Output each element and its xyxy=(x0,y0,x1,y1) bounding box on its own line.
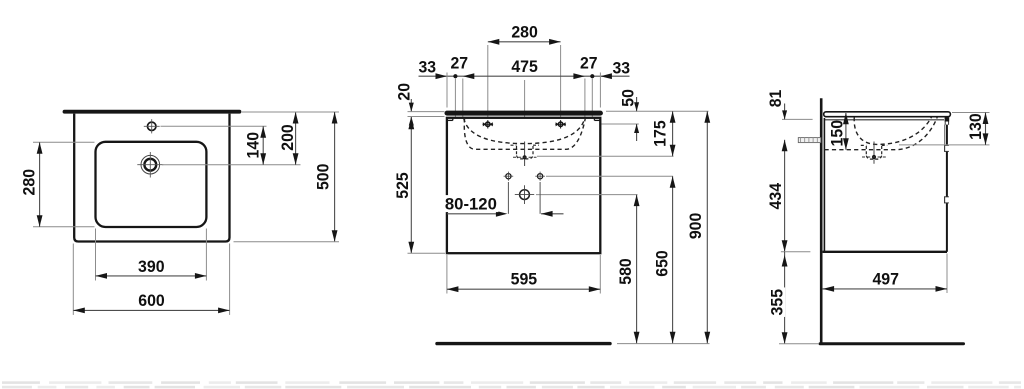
svg-text:600: 600 xyxy=(138,292,165,310)
svg-text:130: 130 xyxy=(967,113,985,140)
svg-text:900: 900 xyxy=(687,213,705,240)
washbasin plan view: body outline 600x500 xyxy=(74,114,229,242)
cabinet bottom side xyxy=(823,251,947,253)
basin bowl hidden outer curve xyxy=(464,118,585,149)
extension lines for 130 xyxy=(952,112,990,114)
svg-text:175: 175 xyxy=(652,120,670,147)
leader from cabinet fixing hole xyxy=(546,175,673,177)
cabinet front edge with drawer gaps xyxy=(946,125,948,146)
basin bowl hidden curve side inner xyxy=(854,117,931,144)
svg-text:500: 500 xyxy=(315,164,333,191)
leader from faucet hole xyxy=(161,125,267,127)
dim 497 cabinet depth xyxy=(823,288,947,290)
extension line cabinet bottom left xyxy=(781,251,811,253)
extension lines fixing holes xyxy=(487,45,489,120)
dim 80-120 siphon range xyxy=(447,213,503,215)
extension line rim top right xyxy=(242,111,339,113)
cropped text strip at bottom xyxy=(2,381,40,384)
dim 525 cabinet height xyxy=(410,118,412,253)
leader from drain xyxy=(162,164,301,166)
extension lines basin left xyxy=(33,141,95,143)
extension lines basin bottom xyxy=(95,229,97,281)
floor extension line xyxy=(617,343,710,345)
wall line xyxy=(820,98,823,343)
svg-text:280: 280 xyxy=(20,169,38,196)
svg-text:475: 475 xyxy=(511,58,538,76)
leader from basin drain to 175 xyxy=(537,155,674,157)
svg-text:390: 390 xyxy=(138,258,165,276)
svg-text:595: 595 xyxy=(511,270,538,288)
dim 81 xyxy=(784,104,786,120)
svg-text:140: 140 xyxy=(245,132,263,159)
extension cabinet front bottom xyxy=(946,254,948,294)
cabinet top edge side xyxy=(825,119,945,121)
washbasin plan view: inner basin 390x280 xyxy=(96,142,207,227)
drain hidden assembly side xyxy=(873,142,875,164)
dim 20 rim thickness xyxy=(410,99,412,112)
svg-text:27: 27 xyxy=(580,55,598,73)
svg-text:27: 27 xyxy=(451,55,469,73)
dim 434 connection to cabinet bottom xyxy=(784,140,786,252)
svg-text:20: 20 xyxy=(396,83,414,101)
washbasin rim side profile xyxy=(824,112,951,117)
dim 390 horizontal xyxy=(96,275,207,277)
svg-text:580: 580 xyxy=(617,258,635,285)
cabinet back panel xyxy=(823,118,825,252)
dim 175 rim to drain xyxy=(672,111,674,156)
dim 50 rim to fixing holes xyxy=(636,97,638,111)
vanity cabinet outline xyxy=(447,118,600,253)
drain cross ticks xyxy=(137,164,163,166)
extension lines rim ends above xyxy=(446,73,448,108)
washbasin rim front bar xyxy=(447,111,600,116)
dim 650 floor to fixing holes xyxy=(672,176,674,343)
basin bowl hidden curve side outer xyxy=(825,117,938,150)
svg-text:525: 525 xyxy=(394,172,412,199)
svg-text:200: 200 xyxy=(279,124,297,151)
dim 900 floor to rim xyxy=(706,111,708,343)
dim 140 vertical xyxy=(262,126,264,164)
dim 595 cabinet width xyxy=(447,288,600,290)
extension lines tap holes with hidden dashes and dots xyxy=(454,79,456,118)
extension rim top to right xyxy=(606,110,709,112)
extension fixing hole level right xyxy=(602,123,639,125)
basin bowl hidden inner curve xyxy=(464,118,585,143)
svg-text:33: 33 xyxy=(419,58,437,76)
cabinet top corner steps xyxy=(447,119,453,121)
svg-text:50: 50 xyxy=(620,89,638,107)
extension line body bottom right xyxy=(234,241,340,243)
extension lines body bottom corners xyxy=(72,244,74,315)
floor line side view xyxy=(820,342,964,345)
drain inner ring xyxy=(144,159,156,171)
dim 500 vertical xyxy=(334,112,336,242)
dim 200 vertical xyxy=(295,112,297,165)
svg-text:280: 280 xyxy=(511,24,538,42)
dim 280 vertical left xyxy=(39,142,41,227)
dim 580 floor to siphon xyxy=(636,195,638,344)
dim 130 top drawer xyxy=(985,113,987,145)
fixing hole symbol left xyxy=(486,122,490,126)
svg-text:497: 497 xyxy=(872,270,899,288)
chained dim row 33/27/475/27/33 xyxy=(419,75,630,77)
water connection symbol xyxy=(798,138,821,143)
extension lines cabinet bottom xyxy=(446,255,448,294)
svg-text:150: 150 xyxy=(829,120,847,147)
dim 600 horizontal xyxy=(73,309,229,311)
washbasin plan view: top rim edge xyxy=(65,110,240,114)
dim 150 basin depth xyxy=(845,113,847,150)
basin front nose xyxy=(945,118,950,122)
drain hidden assembly xyxy=(524,142,526,167)
svg-text:355: 355 xyxy=(769,289,787,316)
faucet hole xyxy=(148,122,156,130)
extension line rim bottom left xyxy=(782,118,813,120)
siphon outlet symbol xyxy=(520,190,530,200)
dim 280 top (fixing holes) xyxy=(488,41,561,43)
dim 355 cabinet bottom to floor xyxy=(784,252,786,344)
svg-text:81: 81 xyxy=(767,90,785,108)
vertical centerline xyxy=(524,80,526,166)
floor extension left xyxy=(779,343,818,345)
leader from siphon outlet xyxy=(536,194,638,196)
svg-text:650: 650 xyxy=(654,250,672,277)
cabinet fixing holes xyxy=(506,174,511,179)
floor line xyxy=(437,342,610,345)
drain outer circle xyxy=(141,155,160,174)
fixing hole symbol right xyxy=(558,122,562,126)
svg-text:33: 33 xyxy=(613,60,631,78)
svg-text:434: 434 xyxy=(767,182,785,209)
svg-text:80-120: 80-120 xyxy=(445,196,497,214)
